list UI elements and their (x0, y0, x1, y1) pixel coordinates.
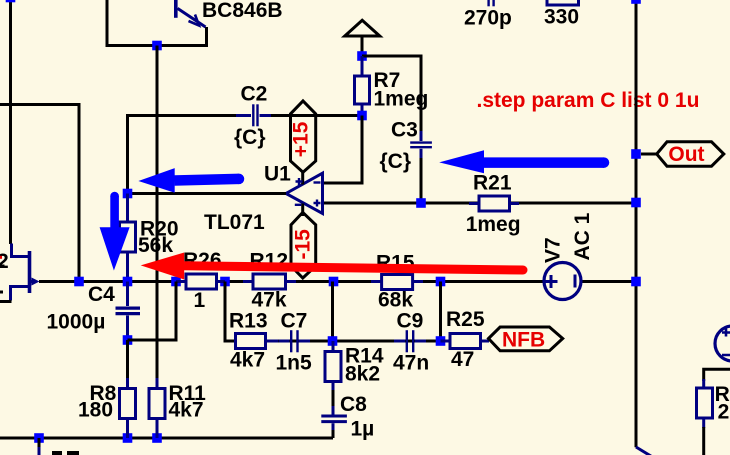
wire long right vertical x=636 (635, 0, 638, 447)
label 4k7 of R13 (230, 348, 265, 371)
capacitor C2 (236, 104, 274, 126)
label 1µ (351, 418, 375, 441)
label 330 (544, 5, 579, 28)
wire output of U1 (128, 192, 287, 195)
label AC 1 rotated (571, 212, 594, 260)
wire x=440.5 rail to NFB row (439, 282, 442, 342)
wire Q1 emitter horizontal (106, 27, 207, 46)
node junction (362,56) (357, 51, 367, 61)
arrow blue down (100, 192, 130, 271)
wire R14 to C8 (332, 390, 335, 408)
flag -15 (291, 212, 316, 278)
wire non-inverting input (324, 116, 362, 184)
wire x=332.5 junctions column (331, 282, 334, 342)
capacitor 270p top edge (489, 0, 494, 6)
label 4k7 of R11 (169, 398, 204, 421)
svg-text:.step param C list 0 1u: .step param C list 0 1u (477, 89, 700, 112)
red mark left edge (0, 256, 2, 259)
label 2 partial (0, 250, 9, 273)
arrow blue middle (to output node) (138, 168, 244, 193)
label {C} of C3 (380, 150, 412, 173)
label R13 (229, 309, 268, 332)
wire long vertical x=157 down to R11 (156, 46, 159, 381)
wire inverting input / R21 net (324, 202, 636, 205)
svg-text:C2: C2 (241, 82, 268, 105)
svg-text:Out: Out (668, 143, 704, 166)
svg-text:AC 1: AC 1 (571, 212, 594, 260)
svg-text:330: 330 (544, 5, 579, 28)
wire V8 to R right (704, 369, 730, 381)
wire Q1 collector-net vertical (106, 0, 109, 46)
svg-text:180: 180 (78, 398, 113, 421)
wire rail right of V7 (582, 280, 636, 283)
wire left horizontal y=104.5 (0, 105, 79, 282)
wire C3 bottom to inverting-input net (420, 158, 423, 203)
node junction (79,281.5) (74, 277, 84, 287)
capacitor C8 (321, 406, 347, 432)
svg-text:270p: 270p (464, 7, 512, 30)
flag +15 (290, 101, 316, 172)
resistor R12 (243, 274, 296, 289)
label R26 (183, 249, 222, 272)
wire Q2 source to left edge (0, 300, 12, 303)
node junction (39,438) (34, 433, 44, 443)
svg-text:{C}: {C} (234, 126, 266, 149)
flag Out (641, 142, 724, 166)
wire main rail y=281.5 (39, 280, 543, 283)
svg-text:U1: U1 (264, 162, 291, 185)
node junction (636,202.5) (631, 198, 641, 208)
resistor R25 (441, 334, 490, 349)
op-amp U1 (286, 173, 323, 217)
svg-text:C3: C3 (391, 118, 418, 141)
resistor R7 (355, 56, 370, 116)
svg-text:47n: 47n (393, 352, 429, 375)
svg-text:1n5: 1n5 (276, 352, 313, 375)
capacitor C9 (394, 330, 426, 352)
voltage source V8 right edge (715, 326, 730, 361)
svg-text:+15: +15 (290, 121, 313, 157)
node junction top-left (6, 0, 16, 2)
svg-text:56k: 56k (138, 234, 173, 257)
wire R13/C7 row (265, 340, 444, 343)
node junction (127.5,193.5) (123, 189, 133, 199)
label R12 (250, 249, 289, 272)
wire C4 bottom loop to rail (128, 282, 177, 341)
label C8 (340, 393, 367, 416)
svg-text:{C}: {C} (380, 150, 412, 173)
node junction (225,281.5) (220, 277, 230, 287)
resistor R15 (371, 275, 423, 290)
label R21 (473, 172, 512, 195)
svg-text:R13: R13 (229, 309, 268, 332)
capacitor C4 (116, 282, 141, 341)
label R20 (140, 218, 179, 241)
node junction (421,203) (416, 198, 426, 208)
node junction (127.5,281.5) (123, 277, 133, 287)
label 180 (78, 398, 113, 421)
label R14 (345, 344, 384, 367)
svg-text:1meg: 1meg (374, 88, 429, 111)
resistor R11 (149, 378, 165, 438)
node junction (636,1) (631, 0, 641, 4)
wire C8 bottom to rail (332, 430, 335, 438)
svg-text:C8: C8 (340, 393, 367, 416)
label 1 of R26 (194, 289, 206, 312)
svg-text:4k7: 4k7 (230, 348, 265, 371)
label 56k (138, 234, 173, 257)
svg-text:C7: C7 (281, 310, 308, 333)
svg-text:BC846B: BC846B (202, 0, 283, 22)
resistor R13 (236, 334, 279, 349)
transistor Q1 BC846B (176, 0, 206, 27)
node junction (157,438) (152, 433, 162, 443)
label V7 rotated (542, 237, 565, 263)
wire C2 net left (128, 114, 241, 117)
svg-text:1µ: 1µ (351, 418, 375, 441)
wire top-left vertical to Q2 drain (9, 0, 12, 244)
label {C} of C2 (234, 126, 266, 149)
svg-text:22: 22 (718, 401, 730, 424)
label C7 (281, 310, 308, 333)
node junction (440.5,281.5) (436, 277, 446, 287)
label R11 (169, 382, 207, 405)
resistor R8 (120, 378, 136, 438)
wire triangle flag to junction (361, 36, 364, 56)
node junction (440.5,341) (436, 336, 446, 346)
label R right partial (715, 383, 730, 406)
node junction (636,154) (631, 149, 641, 159)
svg-text:R25: R25 (446, 308, 485, 331)
capacitor C3 (410, 131, 432, 159)
wire vertical x=127.5 down to output node (126, 114, 129, 194)
label C2 (241, 82, 268, 105)
node junction (333.5,281.5) (329, 277, 339, 287)
svg-text:47k: 47k (252, 288, 287, 311)
wire stub left edge y=266 (0, 265, 5, 268)
label C3 (391, 118, 418, 141)
label 270p (464, 7, 512, 30)
wire C4 junction down to R8 (126, 340, 129, 380)
resistor R20 (120, 194, 136, 282)
label 8k2 (345, 363, 380, 386)
label U1 (264, 162, 291, 185)
wire diagonal bottom right (636, 447, 659, 455)
flag triangle above R7 (345, 20, 380, 36)
arrow red (to rail) (141, 253, 528, 280)
svg-text:C9: C9 (397, 310, 424, 333)
svg-text:C4: C4 (88, 283, 115, 306)
transistor Q2 left edge (11, 244, 40, 301)
wire C2 right to R7 bottom node (271, 114, 362, 117)
label 1000µ (47, 310, 106, 333)
label C4 (88, 283, 115, 306)
wire stub left edge y=292 (0, 291, 3, 294)
label R25 (446, 308, 485, 331)
svg-text:2: 2 (0, 250, 9, 273)
resistor R21 (469, 196, 519, 211)
label R15 (376, 252, 415, 275)
label BC846B (202, 0, 283, 22)
node junction (127.5,438) (123, 433, 133, 443)
svg-text:1000µ: 1000µ (47, 310, 106, 333)
label R8 (90, 382, 117, 405)
label C9 (397, 310, 424, 333)
wire bottom rail (0, 437, 333, 440)
voltage source V7 (544, 263, 581, 300)
capacitor C7 (279, 330, 311, 352)
svg-text:V7: V7 (542, 237, 565, 263)
wire x=225 down to R13 row (225, 282, 236, 342)
node junction (127.5,340) (123, 335, 133, 345)
label TL071 (204, 211, 265, 234)
svg-text:NFB: NFB (502, 329, 545, 352)
label 1meg of R21 (466, 213, 521, 236)
arrow blue right (to Out) (439, 150, 609, 173)
node junction (332.5,341) (328, 336, 338, 346)
label 47 of R25 (451, 348, 474, 371)
svg-text:47: 47 (451, 348, 474, 371)
svg-text:8k2: 8k2 (345, 363, 380, 386)
wire stub below junction 39 (38, 438, 41, 455)
resistor R14 (325, 341, 341, 392)
resistor R26 (176, 274, 225, 289)
node junction (176,281.5) (171, 277, 181, 287)
directive .step param C list 0 1u (477, 89, 700, 112)
svg-text:1: 1 (194, 289, 206, 312)
label R7 (374, 69, 401, 92)
node junction (157,45.5) (152, 41, 162, 51)
svg-text:4k7: 4k7 (169, 398, 204, 421)
svg-text:68k: 68k (378, 288, 413, 311)
wire junction to C3 top (362, 56, 421, 132)
label 47n (393, 352, 429, 375)
label value right partial (718, 401, 730, 424)
flag NFB (489, 327, 563, 352)
label 68k (378, 288, 413, 311)
svg-text:TL071: TL071 (204, 211, 265, 234)
svg-text:1meg: 1meg (466, 213, 521, 236)
node junction (636,281.5) (631, 277, 641, 287)
label bottom partial text (52, 451, 79, 455)
node junction (362,115.5) (357, 111, 367, 121)
wire R right bottom (702, 427, 705, 455)
label 1n5 (276, 352, 313, 375)
resistor 330 top edge (547, 0, 579, 5)
resistor R right edge (697, 379, 713, 428)
svg-text:-15: -15 (291, 229, 314, 260)
svg-text:R21: R21 (473, 172, 512, 195)
label 1meg of R7 (374, 88, 429, 111)
label 47k (252, 288, 287, 311)
